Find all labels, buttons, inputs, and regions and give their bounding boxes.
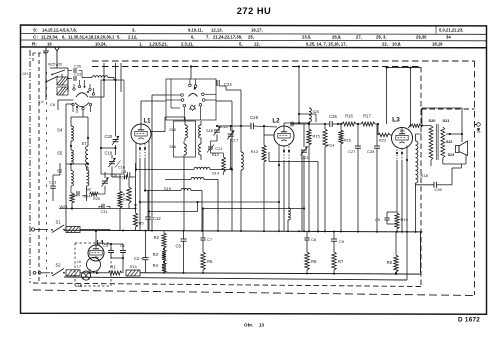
- tuning gang frame: [101, 80, 124, 174]
- wire SK1 contact leads: [73, 84, 75, 88]
- lamp box dashed outline: [75, 242, 111, 244]
- svg-text:6,: 6,: [191, 34, 195, 39]
- svg-text:16,17,: 16,17,: [251, 27, 263, 32]
- svg-text:S5: S5: [57, 151, 63, 156]
- svg-text:S1: S1: [55, 220, 61, 225]
- svg-text:27,: 27,: [356, 34, 362, 39]
- capacitor C5: [124, 175, 126, 180]
- chassis dashed line left B: [38, 53, 40, 283]
- resistor R7: [332, 252, 336, 270]
- wire L2 pin drops: [278, 165, 280, 231]
- grid stopper resistor R23: [411, 124, 421, 127]
- svg-text:S23: S23: [448, 153, 455, 157]
- svg-text:R16: R16: [344, 139, 351, 143]
- svg-text:C9: C9: [339, 239, 345, 244]
- svg-text:272 HU: 272 HU: [237, 6, 272, 16]
- antenna coil S2b: [57, 87, 68, 95]
- wire R13: [263, 126, 265, 145]
- svg-text:S18: S18: [206, 128, 213, 133]
- tube L3 pins: [396, 147, 398, 161]
- wire L1 plate to IF: [150, 131, 165, 133]
- coil S13: [126, 270, 140, 276]
- svg-text:W25 W26: W25 W26: [48, 63, 62, 67]
- svg-text:R13: R13: [251, 149, 259, 154]
- wire AVC line B: [149, 211, 198, 213]
- svg-text:25,: 25,: [248, 34, 254, 39]
- antenna coil S2a: [57, 77, 68, 85]
- svg-text:C26: C26: [329, 114, 337, 119]
- band switch SK2 contacts: [181, 94, 184, 97]
- antenna symbol: [56, 51, 58, 57]
- variable capacitor C21: [208, 146, 213, 148]
- output terminal D: [477, 123, 481, 127]
- svg-text:C22: C22: [221, 124, 228, 129]
- capacitor C28: [374, 145, 380, 147]
- resistor R2: [162, 233, 166, 248]
- resistor R5: [201, 252, 205, 270]
- svg-text:R5: R5: [207, 259, 213, 264]
- svg-text:S:: S:: [33, 28, 38, 33]
- pilot lamp L5: [81, 271, 90, 280]
- wire C24 to bus: [219, 85, 226, 87]
- capacitor C9: [331, 238, 337, 240]
- capacitor C27: [355, 145, 361, 147]
- resistor R22: [377, 124, 379, 135]
- svg-text:10,24,: 10,24,: [95, 41, 107, 46]
- svg-text:C14: C14: [84, 195, 91, 199]
- wire transformer bottom: [430, 160, 432, 166]
- antenna block dashed outline: [32, 53, 34, 62]
- svg-text:C12: C12: [153, 216, 161, 221]
- svg-text:14,15,12,4,5,6,7,8,: 14,15,12,4,5,6,7,8,: [42, 27, 77, 32]
- resistor R16: [342, 122, 356, 126]
- svg-text:R14: R14: [327, 143, 335, 148]
- chassis dashed line top outer: [92, 60, 475, 62]
- oscillator coil S17b: [241, 152, 243, 170]
- svg-text:7.: 7.: [206, 34, 210, 39]
- wire S19 row: [145, 190, 181, 192]
- resistor R8: [394, 255, 398, 272]
- coil S18b: [199, 144, 201, 155]
- aerial switch arm b: [46, 76, 58, 82]
- svg-text:11,35,31,4,18,19,20,36,1: 11,35,31,4,18,19,20,36,1: [68, 34, 115, 39]
- wire detector choke line: [203, 208, 304, 210]
- tube L1 pins: [135, 142, 137, 160]
- wire B+ top jumper: [387, 67, 421, 69]
- wire antenna block wiring: [45, 72, 47, 100]
- parts table row lines: [21, 33, 487, 36]
- transformer primary winding: [429, 126, 433, 161]
- svg-text:L1: L1: [143, 119, 151, 125]
- svg-text:9,10,11,: 9,10,11,: [188, 27, 203, 32]
- band switch SK1 contacts: [73, 88, 75, 90]
- wire L2 cathode return: [268, 152, 270, 162]
- chassis dashed line left C: [46, 72, 48, 278]
- parts table cell divider: [435, 26, 437, 34]
- chassis dashed line bottom inner: [33, 283, 421, 287]
- coil S16: [184, 144, 186, 155]
- outer border frame: [21, 25, 487, 314]
- ground symbol: [45, 47, 47, 51]
- resistor R4: [162, 263, 166, 272]
- svg-text:3,6: 3,6: [38, 99, 44, 104]
- svg-text:C20: C20: [105, 134, 113, 139]
- capacitor C13: [50, 185, 56, 187]
- svg-text:S14: S14: [212, 171, 220, 176]
- coupling capacitor C30: [290, 122, 292, 127]
- svg-text:C25: C25: [250, 115, 259, 120]
- capacitor C5b: [384, 217, 389, 219]
- resistor R20: [90, 192, 99, 196]
- loudspeaker box dashed top edge: [421, 108, 475, 110]
- wire osc box leads: [190, 67, 192, 80]
- wire grid leak row: [59, 208, 136, 210]
- svg-text:18,19: 18,19: [432, 41, 443, 46]
- svg-text:R6: R6: [311, 259, 317, 264]
- resistor R11: [127, 187, 131, 203]
- wire S3 leads: [82, 77, 92, 79]
- coil S7: [86, 146, 88, 167]
- svg-text:D 1672: D 1672: [458, 317, 480, 324]
- svg-text:2,3,11,: 2,3,11,: [181, 41, 194, 46]
- resistor R17: [361, 122, 375, 126]
- svg-text:R3: R3: [153, 252, 159, 257]
- svg-text:13: 13: [259, 323, 265, 328]
- svg-text:34: 34: [446, 34, 451, 39]
- wire L3 pin drops: [396, 160, 398, 213]
- svg-text:Obr.: Obr.: [244, 323, 253, 328]
- wire L3 grid row: [291, 123, 294, 125]
- IF coil box: [174, 121, 196, 157]
- svg-text:R16: R16: [345, 114, 353, 119]
- svg-text:C31: C31: [101, 210, 108, 214]
- chassis dashed line right: [474, 61, 476, 295]
- wire IF2 primary feed: [299, 113, 316, 115]
- capacitor C12: [145, 216, 151, 218]
- switch S1: [52, 225, 64, 233]
- bottom bus: [140, 273, 421, 274]
- variable capacitor C22: [214, 129, 220, 131]
- svg-text:S21: S21: [443, 118, 451, 123]
- heater line: [64, 277, 407, 280]
- ballast S11: [66, 227, 80, 233]
- svg-text:5,0,21,22,23,: 5,0,21,22,23,: [439, 27, 463, 32]
- variable capacitor C19: [109, 161, 115, 163]
- capacitor C1: [120, 250, 126, 252]
- svg-text:R5: R5: [139, 222, 144, 226]
- svg-text:S4: S4: [57, 128, 63, 133]
- capacitor C6: [181, 238, 187, 240]
- svg-text:16: 16: [47, 41, 52, 46]
- antenna series coil S3: [92, 76, 108, 78]
- capacitor C25: [250, 123, 252, 129]
- band switch SK2 rotor: [189, 94, 198, 97]
- capacitor C3: [127, 172, 129, 177]
- svg-text:1,23,5,21,: 1,23,5,21,: [149, 41, 168, 46]
- resistor R21: [118, 191, 122, 208]
- coil S19: [181, 188, 191, 190]
- svg-text:12,13,: 12,13,: [211, 27, 223, 32]
- capacitor C4: [108, 250, 114, 252]
- svg-text:C19: C19: [105, 151, 113, 156]
- resistor R14: [323, 129, 327, 147]
- variable capacitor C20: [113, 139, 119, 141]
- svg-text:C16: C16: [118, 166, 125, 170]
- svg-text:C5: C5: [375, 217, 381, 222]
- variable capacitor C18: [102, 180, 108, 182]
- tube L4 pins: [89, 269, 91, 273]
- resistor R6: [305, 252, 309, 270]
- loudspeaker box dashed left edge: [420, 67, 422, 287]
- resistor R24: [70, 193, 74, 203]
- wire bus risers: [301, 150, 303, 231]
- transformer secondary winding: [441, 127, 445, 158]
- svg-text:300: 300: [399, 129, 405, 133]
- svg-text:S16: S16: [169, 144, 176, 149]
- svg-text:5.: 5.: [117, 34, 121, 39]
- rectifier lamp L6 L7: [87, 258, 101, 272]
- svg-text:C2: C2: [134, 256, 140, 261]
- svg-text:S2: S2: [55, 263, 61, 268]
- capacitor C31: [101, 204, 103, 209]
- mains terminal upper: [31, 228, 34, 231]
- wire AVC line A: [140, 201, 279, 203]
- resistor R12: [222, 157, 226, 172]
- resistor R16b: [339, 130, 343, 144]
- coil S8: [87, 170, 89, 186]
- mains terminal lower: [33, 271, 36, 274]
- wire switch SK1 leads: [58, 99, 74, 101]
- oscillator switch box: [166, 79, 216, 120]
- svg-text:S20: S20: [429, 118, 436, 123]
- svg-text:R7: R7: [338, 259, 344, 264]
- svg-text:C:: C:: [33, 35, 38, 40]
- tube L4: [88, 245, 104, 261]
- variable capacitor C17: [228, 133, 234, 135]
- wire antenna links: [45, 62, 47, 72]
- wire grid row segments: [332, 123, 342, 125]
- svg-text:R20: R20: [93, 197, 100, 201]
- svg-text:26,9,: 26,9,: [332, 34, 341, 39]
- svg-text:R15: R15: [313, 134, 321, 139]
- wire L1 pin drops: [135, 160, 137, 170]
- svg-text:R:: R:: [32, 42, 37, 47]
- aerial switch arm: [52, 70, 65, 75]
- svg-text:R17: R17: [363, 114, 371, 119]
- svg-text:L5: L5: [78, 283, 83, 288]
- svg-text:C8: C8: [311, 237, 317, 242]
- wire S25 detector: [308, 122, 310, 124]
- svg-text:S25: S25: [313, 110, 319, 114]
- capacitor C26: [329, 121, 331, 127]
- svg-text:11,23,34,: 11,23,34,: [41, 34, 58, 39]
- svg-text:S22: S22: [446, 140, 453, 144]
- svg-text:2.12,: 2.12,: [128, 34, 137, 39]
- svg-text:S15: S15: [169, 127, 176, 132]
- svg-text:R4: R4: [153, 263, 159, 268]
- svg-text:W24: W24: [60, 204, 69, 209]
- variable capacitor C23: [301, 149, 307, 151]
- svg-text:C3: C3: [121, 170, 126, 174]
- wire left risers: [59, 163, 61, 175]
- band switch SK1 rotor arcs: [76, 93, 88, 97]
- svg-text:5,: 5,: [239, 41, 243, 46]
- tube L2 pins: [278, 145, 280, 166]
- svg-text:C7: C7: [207, 237, 213, 242]
- svg-text:12,: 12,: [254, 41, 260, 46]
- wire S14b row: [165, 179, 191, 181]
- resistor R3: [162, 250, 166, 261]
- wire choke leads: [287, 220, 289, 231]
- trimmer C16 arrow: [115, 161, 121, 168]
- svg-text:C18: C18: [111, 174, 118, 178]
- svg-text:R19: R19: [401, 217, 409, 222]
- svg-text:23,0,: 23,0,: [302, 34, 311, 39]
- svg-text:R: R: [123, 193, 126, 197]
- svg-text:C35: C35: [74, 65, 81, 69]
- capacitor C8: [304, 237, 309, 239]
- svg-text:C21: C21: [215, 146, 222, 151]
- svg-text:CH: CH: [23, 71, 29, 76]
- capacitor C7: [200, 237, 205, 239]
- wire speaker feed: [422, 107, 462, 109]
- chassis dashed line top inner: [92, 66, 421, 68]
- resistor R1: [108, 271, 122, 275]
- svg-text:R22: R22: [379, 138, 387, 143]
- svg-text:R18: R18: [421, 173, 429, 178]
- capacitor C36: [433, 182, 435, 188]
- wire tuning gang leads: [115, 63, 117, 137]
- svg-text:S13: S13: [129, 264, 137, 269]
- tube L2: [274, 126, 294, 146]
- svg-text:6,25, 14, 7, 15,16, 17,: 6,25, 14, 7, 15,16, 17,: [306, 41, 347, 46]
- wire L2 grid stub: [264, 134, 274, 136]
- coil S15: [185, 125, 187, 138]
- svg-text:28, 3,: 28, 3,: [376, 34, 386, 39]
- switch S2: [52, 269, 64, 277]
- svg-text:L3: L3: [392, 117, 400, 124]
- wire L4 plate: [95, 231, 97, 245]
- svg-text:C28: C28: [367, 149, 375, 154]
- svg-text:6,: 6,: [62, 34, 66, 39]
- wire screen rail verticals: [386, 68, 388, 124]
- svg-text:C17: C17: [231, 138, 238, 143]
- svg-text:22,: 22,: [382, 41, 388, 46]
- capacitor C24: [216, 80, 218, 86]
- wire coil connections: [70, 117, 72, 126]
- wire L2 plate feed: [298, 67, 300, 124]
- capacitor C14: [76, 191, 78, 196]
- wire L2 plate top: [283, 123, 285, 126]
- svg-text:R1: R1: [110, 265, 116, 270]
- svg-text:1,: 1,: [139, 41, 143, 46]
- resistor R10: [133, 213, 137, 227]
- svg-text:C36: C36: [434, 187, 442, 192]
- svg-text:L6: L6: [77, 260, 81, 264]
- svg-text:L7: L7: [77, 265, 81, 269]
- svg-text:S7: S7: [81, 141, 87, 146]
- field coil R18: [416, 141, 418, 183]
- coil S5: [71, 150, 73, 164]
- transformer core: [435, 124, 437, 160]
- loudspeaker: [456, 146, 460, 153]
- choke coil S17: [288, 208, 290, 220]
- wire SK2 internal: [166, 94, 181, 96]
- wire C25 row: [217, 125, 251, 127]
- coil S4: [71, 126, 73, 141]
- svg-text:L2: L2: [272, 118, 280, 125]
- tube L3: [392, 128, 413, 149]
- svg-text:3,: 3,: [132, 27, 136, 32]
- svg-text:21,24,22,17,38,: 21,24,22,17,38,: [213, 34, 242, 39]
- resistor R15: [307, 129, 311, 145]
- coil S14b: [191, 177, 204, 179]
- wire C36 loop: [415, 184, 434, 186]
- wire IF1 connections: [184, 121, 186, 125]
- coil S18: [199, 125, 201, 138]
- svg-text:C27: C27: [348, 149, 356, 154]
- coil S6: [71, 171, 73, 186]
- wire plate to transformer: [408, 126, 411, 128]
- svg-text:R8: R8: [387, 260, 393, 265]
- svg-text:R2: R2: [154, 235, 160, 240]
- capacitor C2: [143, 257, 149, 259]
- wire antenna leads: [45, 55, 47, 62]
- wire lamp cathode row: [104, 243, 123, 245]
- coil S25: [309, 108, 311, 122]
- ballast S12: [66, 270, 80, 276]
- main bus: [64, 230, 423, 232]
- wire grid feed L1: [141, 100, 166, 102]
- svg-text:10,8.: 10,8.: [392, 41, 401, 46]
- wire S14 row: [160, 169, 194, 171]
- svg-text:C6: C6: [50, 102, 56, 107]
- svg-text:C6: C6: [176, 244, 182, 249]
- tube L1: [131, 124, 151, 144]
- chassis dashed line bottom outer: [33, 290, 475, 296]
- resistor R19: [395, 213, 399, 229]
- svg-text:29,30: 29,30: [416, 34, 427, 39]
- resistor R13: [262, 145, 266, 162]
- coil S14: [194, 167, 210, 169]
- svg-text:C33: C33: [74, 73, 81, 77]
- chassis dash-dot line left A: [29, 50, 31, 283]
